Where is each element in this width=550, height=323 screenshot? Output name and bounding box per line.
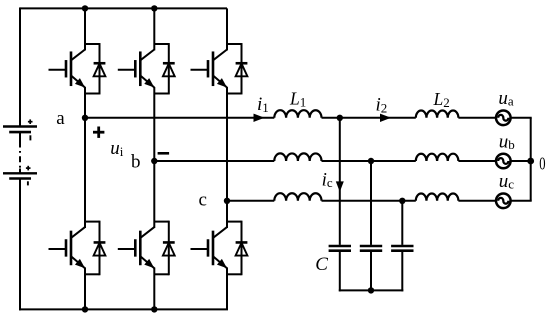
ac source ua: [496, 111, 511, 126]
svg-text:C: C: [315, 254, 328, 275]
wire: capacitor branch phase c (upper): [401, 201, 403, 245]
arrow i1: [254, 114, 265, 122]
wire: capacitor branch phase a (lower): [339, 252, 341, 292]
wire: phase leg x=227 middle section: [226, 87, 228, 228]
wire: phase leg x=85 middle section: [84, 87, 86, 228]
capacitor C phase a: [329, 246, 351, 251]
wire: phase leg x=154.3 upper lead: [153, 8, 155, 50]
label plus of ui: [93, 131, 104, 134]
inductor L2 phase c: [416, 194, 459, 201]
ac source ub: [496, 154, 511, 169]
node: phase b capacitor tap: [368, 158, 374, 164]
node 0 (neutral point): [527, 158, 534, 165]
wire: capacitor branch phase a (upper): [339, 118, 341, 245]
diode D2 (anti-parallel with Q2): [154, 43, 174, 94]
wire: phase leg x=85 upper lead: [84, 8, 86, 50]
node a: [82, 115, 88, 121]
node: phase c capacitor tap: [399, 198, 405, 204]
wire: phase b from L2 to source ub: [458, 160, 496, 162]
arrow ic (capacitor current): [336, 181, 344, 192]
inductor L1 phase b: [274, 153, 321, 161]
svg-text:0: 0: [539, 153, 545, 173]
capacitor C phase c: [391, 246, 413, 251]
wire: dash-dot link between battery cells: [19, 132, 21, 141]
wire: phase b from L1 to L2: [322, 160, 416, 162]
wire: phase a from source to right rail: [511, 117, 532, 119]
node: junction leg2/top rail: [151, 5, 157, 11]
wire: phase b from node b to L1: [154, 160, 274, 162]
wire: phase leg x=227 upper lead: [226, 8, 228, 50]
svg-text:c: c: [198, 190, 206, 211]
node: capacitor bus junction: [368, 287, 374, 293]
diode D6 (anti-parallel with Q6): [227, 221, 247, 276]
transistor Q4 (IGBT): [49, 227, 88, 271]
transistor Q2 (IGBT): [118, 50, 157, 91]
diode D3 (anti-parallel with Q3): [227, 43, 247, 94]
wire: phase a from L1 to L2: [322, 117, 416, 119]
ac source uc: [496, 194, 511, 209]
wire: phase c from node c to L1: [227, 200, 274, 202]
transistor Q5 (IGBT): [118, 227, 157, 271]
wire: phase a from L2 to source ua: [458, 117, 496, 119]
arrow i2: [380, 114, 391, 122]
inductor L1 phase a: [274, 110, 321, 118]
wire: capacitor common bus: [339, 289, 404, 291]
wire: phase c from L2 to source uc: [458, 200, 496, 202]
wire: phase c from source to right rail: [511, 200, 532, 202]
node c: [224, 198, 230, 204]
wire: capacitor branch phase b (upper): [370, 161, 372, 245]
battery E1 (upper DC source): [3, 119, 37, 140]
wire: phase b from source to node 0: [511, 160, 531, 162]
transistor Q1 (IGBT): [49, 50, 88, 91]
wire: top DC rail: [20, 7, 227, 9]
wire: left DC rail (top section): [19, 7, 21, 126]
wire: phase leg x=154.3 middle section: [153, 87, 155, 228]
inductor L2 phase a: [416, 111, 459, 118]
diode D5 (anti-parallel with Q5): [154, 221, 174, 276]
svg-text:a: a: [56, 108, 65, 129]
inductor L1 phase c: [274, 193, 321, 201]
capacitor C phase b: [360, 246, 382, 251]
inductor L2 phase b: [416, 154, 459, 161]
wire: phase c from L1 to L2: [322, 200, 416, 202]
wire: phase leg x=154.3 lower lead: [153, 268, 155, 310]
node: junction leg1/top rail: [82, 5, 88, 11]
wire: capacitor branch phase b (lower): [370, 252, 372, 292]
wire: left DC rail (bottom section): [19, 179, 21, 311]
transistor Q6 (IGBT): [191, 227, 230, 271]
wire: phase leg x=85 lower lead: [84, 268, 86, 310]
wire: right rail (neutral): [530, 118, 532, 201]
svg-text:b: b: [131, 152, 141, 173]
wire: phase leg x=227 lower lead: [226, 268, 228, 310]
node: junction leg2/bottom rail: [151, 306, 157, 312]
node: junction leg1/bottom rail: [82, 306, 88, 312]
label minus of ui: [158, 152, 170, 155]
node: phase a capacitor tap: [337, 115, 343, 121]
node b: [151, 158, 157, 164]
battery E2 (lower DC source): [3, 166, 37, 186]
wire: phase a from node a to L1: [85, 117, 274, 119]
wire: bottom DC rail: [19, 308, 228, 310]
diode D1 (anti-parallel with Q1): [85, 43, 105, 94]
transistor Q3 (IGBT): [191, 50, 230, 91]
diode D4 (anti-parallel with Q4): [85, 221, 105, 276]
wire: capacitor branch phase c (lower): [401, 252, 403, 292]
